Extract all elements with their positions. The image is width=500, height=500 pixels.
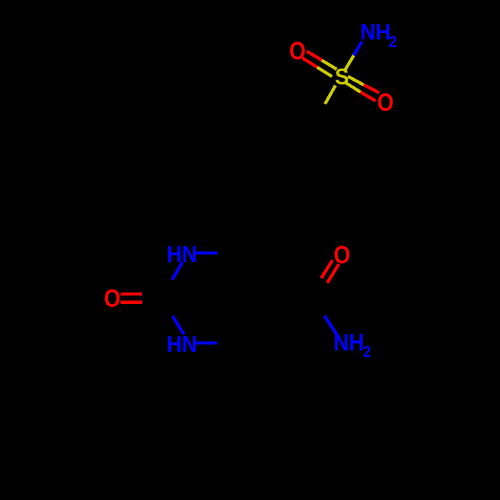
svg-text:O: O: [289, 37, 305, 65]
svg-text:2: 2: [389, 34, 397, 52]
svg-text:HN: HN: [167, 241, 198, 267]
svg-text:S: S: [335, 64, 349, 90]
svg-text:O: O: [334, 241, 350, 269]
svg-text:HN: HN: [167, 331, 198, 357]
svg-text:NH: NH: [334, 328, 365, 356]
svg-text:O: O: [377, 88, 393, 116]
svg-text:O: O: [104, 284, 120, 312]
svg-text:NH: NH: [360, 19, 391, 45]
svg-text:2: 2: [363, 343, 371, 361]
